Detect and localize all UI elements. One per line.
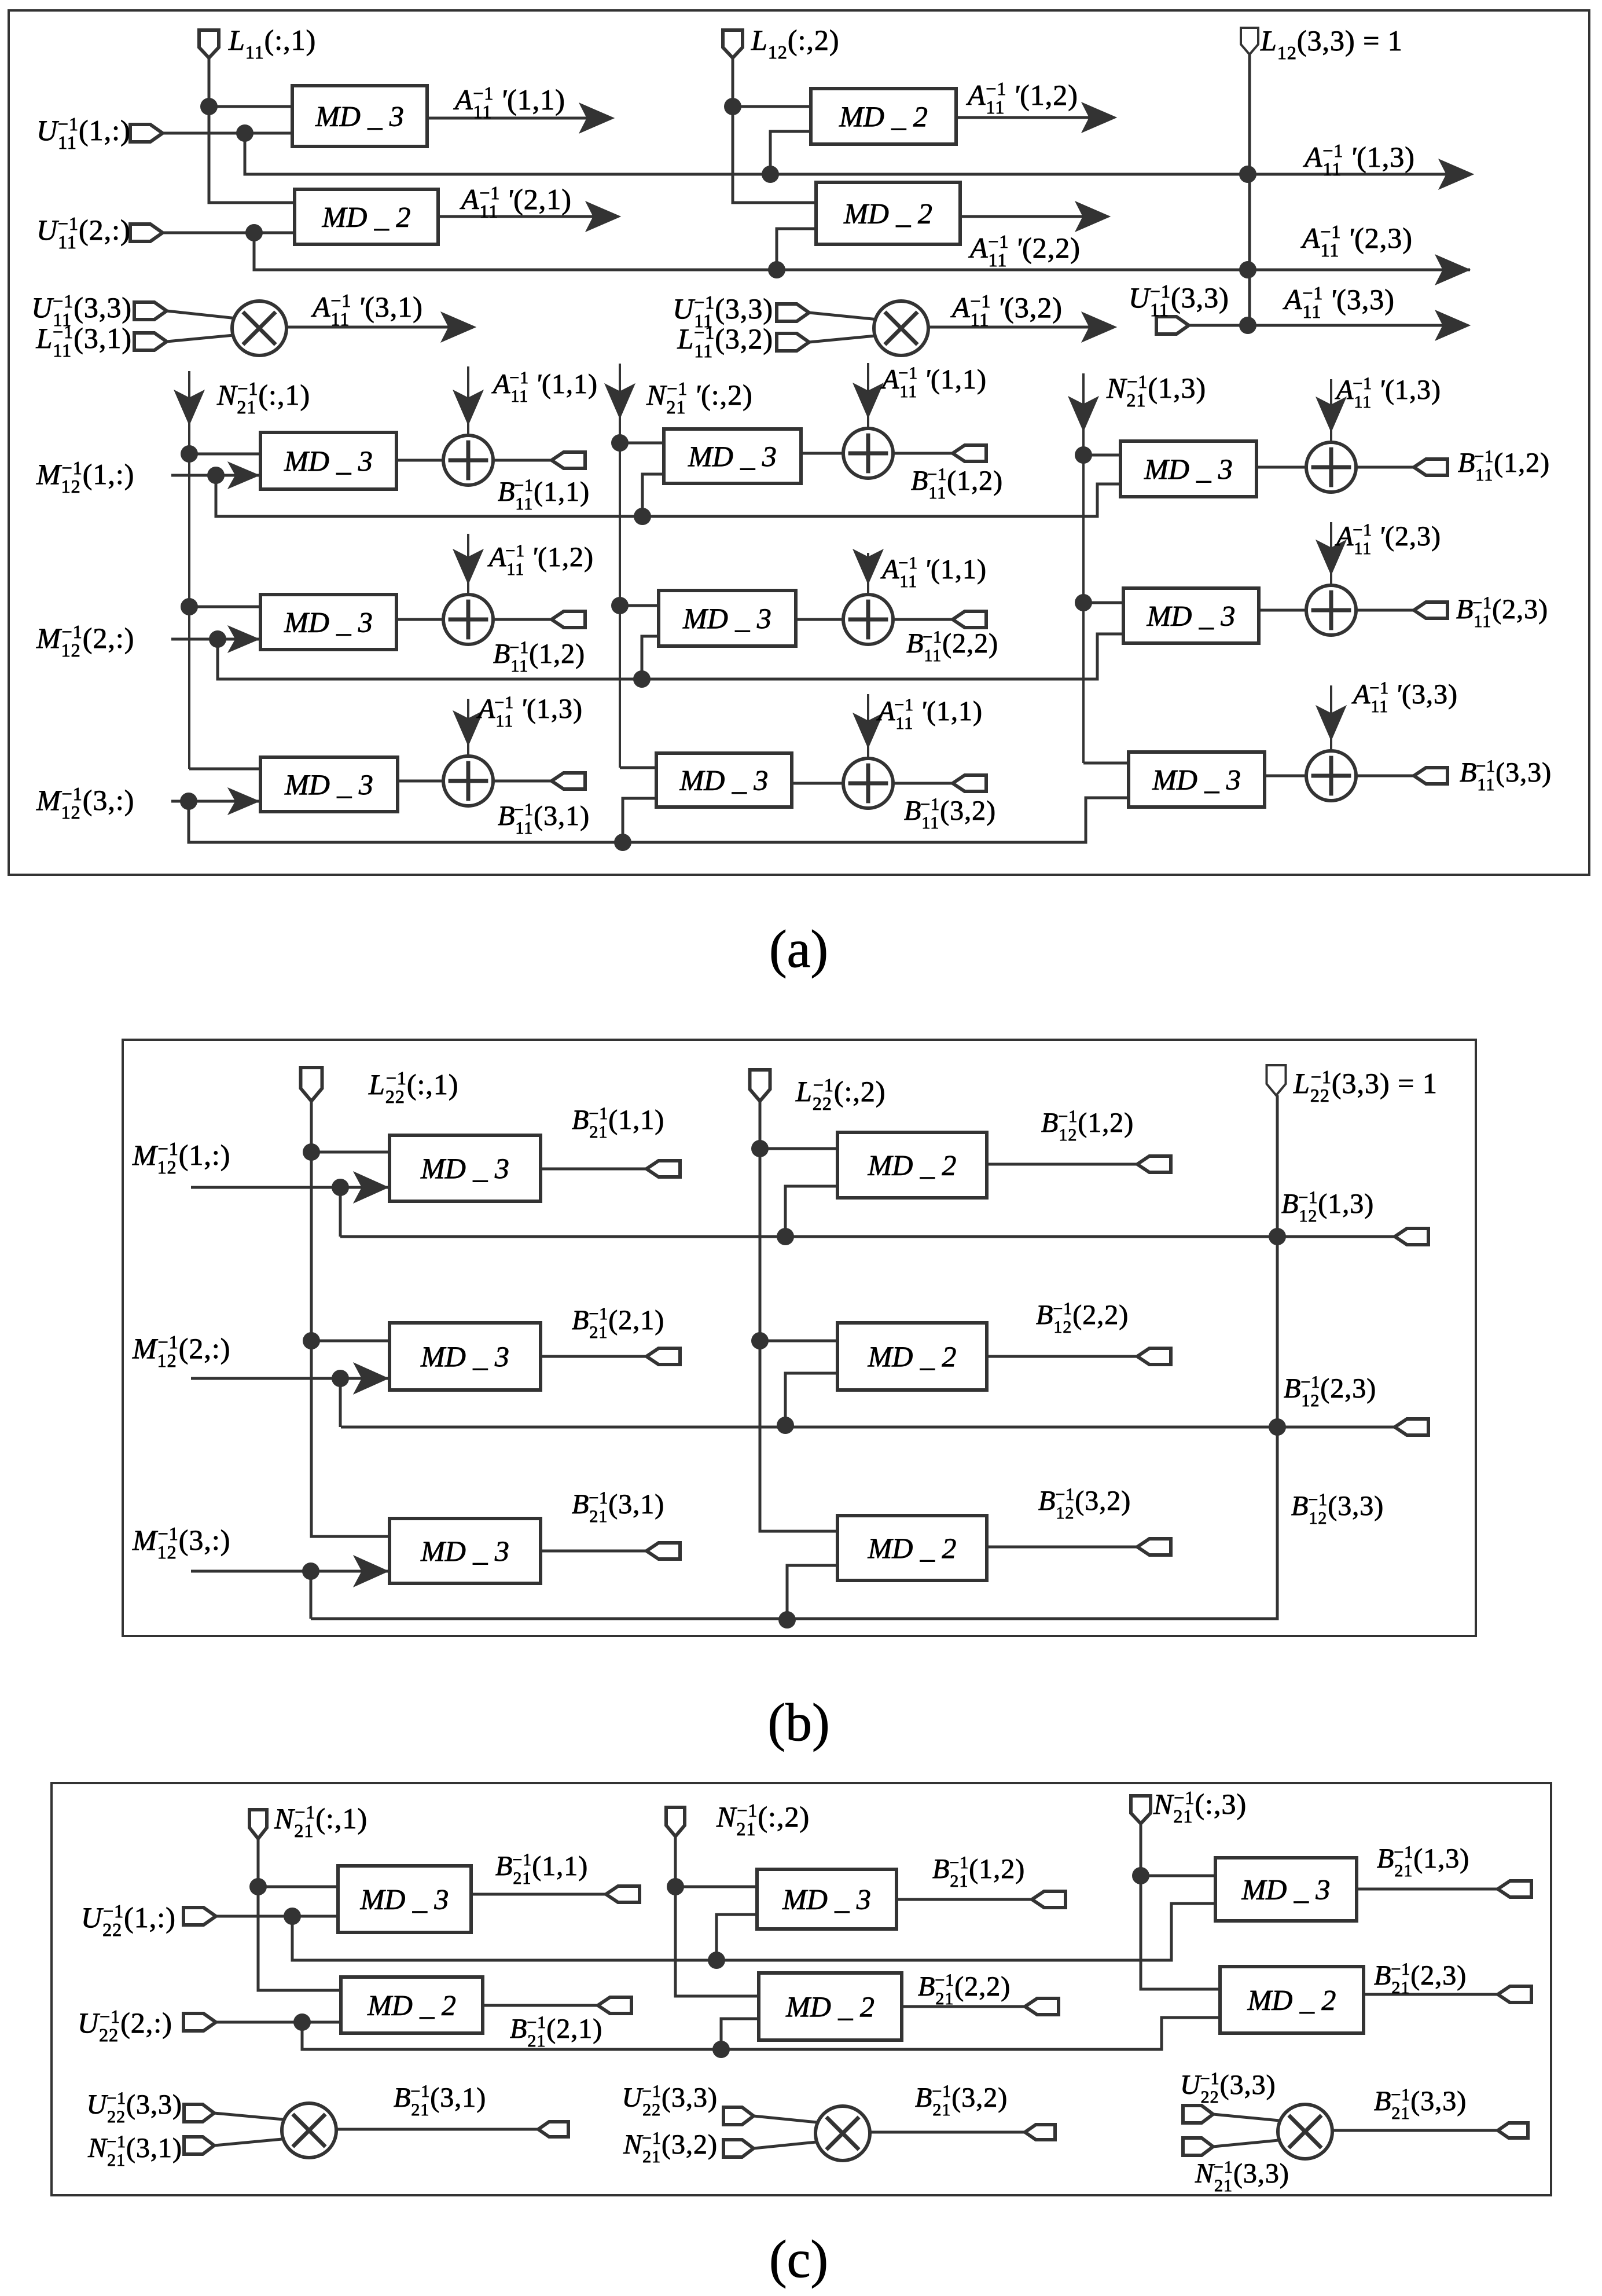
- node U22(2,:) branch: [293, 2013, 311, 2031]
- block MD_3 row1 col1: [260, 432, 396, 489]
- wire MD_2a output A11(1,2): [956, 116, 1113, 119]
- node N21 col3 (c): [1132, 1867, 1149, 1884]
- svg-text:(c): (c): [769, 2229, 828, 2288]
- block MD_3 b row3: [390, 1519, 541, 1583]
- node N21 vertical row1 col1: [181, 445, 198, 463]
- wire MD_2 b row3 output: [987, 1546, 1137, 1549]
- output flag B21(2,3) (c): [1498, 1986, 1531, 2002]
- node bus2 col2 (c): [712, 2041, 730, 2058]
- output flag B12 row3: [1137, 1539, 1171, 1555]
- panel (c) outer border: [52, 1783, 1551, 2195]
- wire adder to output row3 col2: [893, 782, 953, 785]
- wire N21 to MD_3 row3 col2: [620, 766, 656, 769]
- node bus1 col3: [1239, 166, 1256, 183]
- wire U22(3,3) to mult2: [754, 2116, 823, 2123]
- block MD_3 col1 (c): [338, 1866, 471, 1932]
- arrow A11 into adder row1 col1: [467, 366, 469, 435]
- multiplier (c) 2: [815, 2106, 870, 2161]
- wire L12(:,2) vertical: [733, 58, 816, 203]
- wire branch to A11(1,3) bus: [245, 133, 1470, 174]
- svg-text:MD _ 2: MD _ 2: [843, 197, 932, 230]
- wire adder to output row1 col2: [893, 452, 953, 455]
- node L22(:,2) row2: [751, 1332, 769, 1349]
- arrow A11(2,2): [1075, 201, 1110, 232]
- wire MD_3 output A11(1,1): [427, 117, 611, 120]
- wire M12-1(1,:) bus: [216, 475, 1120, 516]
- wire L11(3,2) to multiplier 2: [809, 335, 881, 342]
- wire N21 vertical col2 (c): [675, 1835, 759, 1996]
- io flag U11-1(1,:): [130, 124, 163, 142]
- io flag U22-1(2,:): [183, 2013, 216, 2031]
- wire L22(:,2) to box row2: [760, 1340, 837, 1343]
- output flag B12(1,3): [1395, 1228, 1428, 1245]
- wire bus branch up col2 (b) row2: [785, 1373, 837, 1425]
- wire bus2 branch up to MD_2b: [777, 229, 816, 270]
- wire MD_3 to adder row1 col1: [396, 459, 443, 462]
- wire M12-1(1,:): [171, 474, 260, 477]
- wire bus2 (c): [302, 2018, 1220, 2049]
- input flag N21-1(:,2) (c): [666, 1807, 685, 1836]
- wire MD_2 col3 output (c): [1364, 1993, 1498, 1996]
- wire N21 to MD_3 row1 col2: [620, 442, 664, 445]
- output flag B21(2,2) (c): [1025, 1998, 1059, 2015]
- input flag L22-1(3,3)=1: [1267, 1065, 1286, 1095]
- svg-text:MD _ 3: MD _ 3: [315, 100, 404, 133]
- wire U11(3,3) to multiplier: [167, 311, 242, 319]
- wire N21 to MD_3 col1 (c): [258, 1886, 338, 1888]
- wire MD_3 to adder row2 col2: [796, 618, 843, 621]
- wire MD_3 to adder row3 col3: [1265, 775, 1306, 777]
- adder row3 col1: [443, 756, 493, 806]
- svg-text:MD _ 3: MD _ 3: [284, 606, 373, 639]
- arrow A11 into adder row2 col3: [1330, 522, 1332, 585]
- node bus2 to MD_2b: [768, 261, 785, 278]
- arrow A11(2,3): [1435, 255, 1470, 285]
- wire N21 to MD_3 col3 (c): [1141, 1875, 1215, 1877]
- wire MD_3 col2 output (c): [896, 1898, 1032, 1901]
- node N21 col2 (c): [667, 1878, 684, 1895]
- node U11(1,:) branch: [236, 124, 253, 142]
- block MD_3 row3 col3: [1129, 752, 1265, 807]
- wire U11(3,3) to multiplier 2: [809, 313, 884, 320]
- wire U11(3,3) to node: [1189, 324, 1250, 327]
- node bus2 to col2 (b): [777, 1417, 794, 1434]
- arrow A11 into adder row3 col1: [467, 699, 469, 756]
- io flag U11-1(2,:): [130, 224, 163, 241]
- svg-text:MD _ 2: MD _ 2: [367, 1989, 456, 2022]
- wire L22(:,1) vertical: [311, 1101, 390, 1536]
- wire MD_3 to adder row3 col1: [398, 780, 443, 783]
- wire N21 to MD_3 col2 (c): [675, 1886, 757, 1888]
- input flag L12(:,2): [723, 30, 743, 58]
- wire N21 vertical col1 (c): [258, 1837, 341, 1990]
- arrow A11 into adder row2 col1: [467, 534, 469, 595]
- output flag B11 row1 col2: [953, 445, 986, 461]
- wire M12-1(2,:) bus branch col2: [642, 636, 659, 679]
- block MD_2 col1 (c): [341, 1977, 483, 2033]
- wire U22(3,3) to mult1: [214, 2113, 289, 2120]
- node M12-1(1,:) bus to col2: [634, 508, 651, 525]
- wire M12-1(3,:) bus: [189, 798, 1129, 842]
- arrow into MD_3 row3 col1: [228, 788, 259, 815]
- wire L22 to MD_3 b1: [311, 1151, 390, 1154]
- node bus3 to col2 (b): [778, 1611, 796, 1629]
- arrow into MD_3 b row3: [354, 1556, 388, 1587]
- adder row3 col3: [1306, 751, 1356, 801]
- arrow A11 into adder row2 col2: [867, 553, 869, 595]
- output flag B21(3,1): [538, 2122, 568, 2137]
- wire L12 to MD_2a input: [733, 105, 811, 108]
- node M12-1(3,:) bus to col2: [614, 834, 631, 851]
- wire U11(2,:) to MD_2: [163, 232, 295, 234]
- block MD_3 col3 (c): [1215, 1858, 1357, 1921]
- node N21 col1 (c): [249, 1878, 267, 1895]
- node L22(:,2) row1: [751, 1140, 769, 1157]
- output flag B21 (b) row2: [646, 1348, 680, 1365]
- wire N21(3,2) to mult2: [754, 2141, 822, 2148]
- wire L22 to MD_3 b2: [311, 1340, 390, 1343]
- svg-text:MD _ 2: MD _ 2: [785, 1990, 875, 2023]
- output flag B21 (b) row1: [646, 1161, 680, 1177]
- wire MD_2 col2 output (c): [902, 2005, 1025, 2008]
- wire L22(:,2) to box row1: [760, 1147, 837, 1150]
- arrow into MD_3 row2 col1: [228, 626, 259, 652]
- adder row2 col3: [1306, 585, 1356, 635]
- wire MD_3 to adder row1 col3: [1256, 466, 1306, 469]
- wire MD_3 col3 output (c): [1357, 1888, 1498, 1891]
- node bus2 col3 (b): [1269, 1418, 1286, 1436]
- io flag U11-1(3,3) left: [134, 302, 167, 320]
- wire MD_3 col1 output (c): [471, 1893, 606, 1896]
- node bus1 col2 (c): [708, 1952, 725, 1969]
- wire M12(2,:) (b): [191, 1377, 390, 1380]
- wire MD_2 col1 output (c): [483, 2004, 598, 2007]
- wire M12(1,:) bus (b): [339, 1187, 342, 1237]
- input flag N21-1(:,1) (c): [249, 1810, 267, 1839]
- wire branch to A11(2,3) bus: [254, 233, 1470, 270]
- wire M12-1(3,:): [171, 800, 260, 803]
- output flag B21 (b) row3: [646, 1543, 680, 1559]
- node N21 vertical row2 col3: [1075, 594, 1092, 611]
- wire multiplier2 output A11(3,2): [928, 326, 1113, 329]
- wire M12(3,:) bus (b): [310, 1571, 313, 1619]
- svg-text:MD _ 2: MD _ 2: [868, 1340, 957, 1373]
- wire mult3 output (c): [1332, 2129, 1498, 2132]
- output flag B21(1,1) (c): [606, 1886, 640, 1902]
- input flag L11(:,1): [199, 30, 219, 58]
- output flag B21(1,3) (c): [1498, 1881, 1531, 1897]
- block MD_2 col3 (c): [1220, 1967, 1364, 2033]
- node bus1 to MD_2a: [762, 166, 779, 183]
- arrow A11(1,1): [579, 103, 614, 133]
- wire bus branch up col2 (b) row1: [785, 1186, 837, 1237]
- io flag U22-1(3,3) mult2 (c): [723, 2107, 754, 2125]
- wire adder to output row3 col3: [1356, 775, 1414, 777]
- block MD_2 col2 (c): [759, 1973, 902, 2040]
- node M12-1(2,:) bus to col2: [633, 670, 651, 688]
- io flag N21-1(3,2) (c): [723, 2140, 754, 2157]
- wire adder to output row2 col2: [893, 618, 953, 621]
- node M12-1(1,:) branch: [207, 467, 225, 484]
- io flag U22-1(1,:): [183, 1908, 216, 1925]
- svg-text:MD _ 3: MD _ 3: [1152, 764, 1241, 796]
- wire L12(3,3) vertical: [1248, 54, 1251, 325]
- wire N21 to MD_3 row3 col3: [1083, 762, 1129, 765]
- wire N21 to MD_3 row2 col2: [620, 604, 659, 607]
- wire bus2 branch col2 (c): [721, 2019, 759, 2049]
- input flag N21-1(:,3) (c): [1131, 1796, 1151, 1824]
- block MD_3 row3 col2: [656, 753, 792, 807]
- svg-text:MD _ 3: MD _ 3: [1147, 600, 1236, 632]
- node N21 vertical row2 col1: [181, 598, 198, 615]
- io flag L11-1(3,2): [777, 333, 809, 351]
- arrow A11 into adder row3 col3: [1330, 685, 1332, 751]
- block MD_3 row3 col1: [260, 757, 398, 812]
- node M12(1,:) branch (b): [332, 1179, 349, 1196]
- multiplier (c) 3: [1278, 2104, 1332, 2159]
- arrow A11(3,3): [1435, 310, 1470, 340]
- input flag L12(3,3)=1: [1241, 28, 1258, 54]
- block MD_3 b row1: [390, 1135, 541, 1201]
- block MD_2 b row3 col2: [837, 1516, 987, 1580]
- output flag B11 row1 col1: [552, 452, 585, 468]
- wire bus1 (c): [292, 1903, 1215, 1960]
- io flag U11-1(3,3) mid: [777, 304, 809, 321]
- wire M12(2,:) bus (b): [339, 1378, 342, 1427]
- output flag B12(2,3): [1395, 1419, 1428, 1435]
- arrow A11(3,1): [441, 312, 476, 342]
- svg-text:MD _ 3: MD _ 3: [688, 440, 777, 472]
- wire N21(3,1) to mult1: [214, 2139, 288, 2145]
- output flag B11 row2 col2: [953, 611, 986, 628]
- output flag B21(3,3): [1498, 2123, 1528, 2138]
- wire adder to output row3 col1: [493, 780, 552, 783]
- block MD_2 (a) top-col2: [811, 89, 956, 144]
- node N21 vertical row1 col3: [1075, 446, 1092, 464]
- wire MD_2 output A11(2,1): [438, 215, 617, 218]
- wire M12(3,:) (b): [191, 1570, 390, 1573]
- wire U11(1,:) to MD_3: [163, 132, 292, 135]
- arrow A11(1,2): [1082, 102, 1116, 133]
- adder row1 col3: [1306, 442, 1356, 492]
- node L22 row1: [303, 1143, 320, 1161]
- wire U22(1,:) (c): [216, 1915, 338, 1918]
- wire N21(3,3) to mult3: [1213, 2140, 1284, 2147]
- block MD_3 row2 col1: [260, 595, 396, 650]
- svg-text:MD _ 3: MD _ 3: [1144, 453, 1233, 485]
- adder row3 col2: [843, 758, 893, 808]
- wire MD_3 to adder row2 col1: [396, 618, 443, 621]
- block MD_3 col2 (c): [757, 1869, 896, 1929]
- arrow A11(1,3): [1439, 159, 1474, 189]
- arrow A11 into adder row1 col3: [1330, 379, 1332, 442]
- wire M12-1(2,:) bus: [218, 634, 1123, 679]
- wire MD_3 to adder row2 col3: [1259, 609, 1306, 612]
- svg-text:(a): (a): [769, 919, 828, 978]
- wire A11(3,3) output: [1248, 324, 1467, 327]
- wire MD_2 b row2 output: [987, 1355, 1137, 1358]
- node A11(3,3): [1239, 317, 1256, 334]
- wire bus branch up col2 (b) row3: [787, 1565, 837, 1620]
- wire U22(2,:) (c): [216, 2021, 341, 2024]
- wire L22(:,2) vertical: [760, 1100, 837, 1531]
- panel (a) outer border: [9, 10, 1589, 875]
- input arrow N21-1(:,2): [619, 364, 621, 768]
- wire M12-1(3,:) bus branch col2: [623, 798, 656, 842]
- wire adder to output row2 col3: [1356, 609, 1414, 612]
- arrow A11(2,1): [586, 201, 620, 232]
- wire MD_3 to adder row1 col2: [801, 452, 843, 455]
- block MD_3 row2 col2: [659, 590, 796, 646]
- arrow A11 into adder row3 col2: [867, 694, 869, 758]
- svg-text:(b): (b): [767, 1693, 829, 1752]
- wire MD_3 b row3 output: [541, 1550, 646, 1553]
- input flag L22-1(:,2): [750, 1070, 770, 1101]
- block MD_3 b row2: [390, 1323, 541, 1390]
- io flag U22-1(3,3) mult1 (c): [184, 2104, 214, 2122]
- svg-text:MD _ 3: MD _ 3: [420, 1340, 509, 1373]
- output flag B21(3,2): [1025, 2125, 1055, 2140]
- svg-text:MD _ 3: MD _ 3: [284, 445, 373, 477]
- wire B12(2,3) output: [1277, 1426, 1395, 1429]
- node M12(2,:) branch (b): [332, 1370, 349, 1387]
- node U11(2,:) branch: [245, 224, 263, 241]
- output flag B11 row3 col2: [953, 775, 986, 791]
- adder row1 col2: [843, 428, 893, 478]
- block MD_3 row1 col2: [664, 429, 801, 483]
- block MD_3 row2 col3: [1123, 588, 1259, 643]
- arrow into MD_3 b row1: [354, 1172, 388, 1203]
- wire mult2 output (c): [870, 2131, 1025, 2134]
- wire N21 to MD_3 row2 col3: [1083, 601, 1123, 604]
- wire adder to output row1 col1: [493, 459, 552, 462]
- wire L11(3,1) to multiplier: [167, 335, 240, 342]
- wire M12(1,:) (b): [191, 1186, 390, 1189]
- wire N21 to MD_3 row1 col1: [189, 453, 260, 456]
- wire N21 to MD_3 row1 col3: [1083, 454, 1120, 457]
- arrow A11(3,2): [1082, 312, 1116, 342]
- svg-text:MD _ 2: MD _ 2: [1247, 1984, 1336, 2016]
- wire MD_2 b row1 output: [987, 1163, 1137, 1166]
- multiplier X2: [874, 301, 928, 355]
- arrow into MD_3 b row2: [354, 1363, 388, 1394]
- output flag B11 row1 col3: [1414, 459, 1447, 475]
- io flag L11-1(3,1): [134, 333, 167, 350]
- node M12(3,:) branch (b): [302, 1563, 319, 1580]
- wire MD_2b output A11(2,2): [960, 215, 1107, 218]
- output flag B21(1,2) (c): [1032, 1891, 1065, 1908]
- svg-text:MD _ 3: MD _ 3: [682, 602, 771, 634]
- wire N21 to MD_3 row3 col1: [189, 768, 260, 771]
- node bus2 col3: [1239, 261, 1256, 278]
- wire MD_3 b row2 output: [541, 1355, 646, 1358]
- adder row2 col1: [443, 595, 493, 644]
- wire M12-1(1,:) bus branch col2: [642, 474, 664, 516]
- wire L11(:,1) vertical: [209, 58, 295, 203]
- output flag B11 row3 col1: [552, 773, 585, 789]
- wire U22(3,3) to mult3: [1213, 2114, 1285, 2121]
- node L11 junction: [200, 98, 218, 115]
- io flag N21-1(3,3) (c): [1183, 2138, 1213, 2155]
- wire bus2 (b): [341, 1426, 1277, 1429]
- multiplier X1: [232, 301, 286, 355]
- svg-text:MD _ 2: MD _ 2: [868, 1149, 957, 1182]
- adder row2 col2: [843, 595, 893, 644]
- wire bus1 (b): [340, 1235, 1277, 1238]
- wire mult1 output (c): [336, 2128, 538, 2131]
- wire adder to output row1 col3: [1356, 466, 1414, 469]
- io flag U11-1(3,3) right: [1156, 317, 1189, 334]
- svg-text:MD _ 3: MD _ 3: [420, 1152, 509, 1184]
- multiplier (c) 1: [282, 2103, 336, 2158]
- node M12-1(2,:) branch: [209, 630, 226, 648]
- svg-text:MD _ 3: MD _ 3: [782, 1883, 871, 1916]
- wire N21 vertical col3 (c): [1141, 1824, 1220, 1989]
- wire adder to output row2 col1: [493, 618, 552, 621]
- node L22 row2: [303, 1332, 320, 1349]
- output flag B12 row1: [1137, 1156, 1171, 1172]
- svg-text:MD _ 3: MD _ 3: [1241, 1873, 1331, 1906]
- node bus1 to col2 (b): [777, 1228, 794, 1245]
- block MD_2 (a) mid-left: [295, 189, 438, 244]
- output flag B21(2,1) (c): [598, 1997, 631, 2013]
- node bus1 col3 (b): [1269, 1228, 1286, 1245]
- wire multiplier output A11(3,1): [286, 326, 472, 329]
- svg-text:MD _ 3: MD _ 3: [360, 1883, 449, 1916]
- output flag B12 row2: [1137, 1348, 1171, 1365]
- wire bus1 branch up to MD_2a: [770, 131, 811, 174]
- wire N21 to MD_3 row2 col1: [189, 606, 260, 608]
- wire B12(1,3) output: [1277, 1235, 1395, 1238]
- block MD_3 (a) top-left: [292, 86, 427, 146]
- node M12-1(3,:) branch: [180, 793, 197, 810]
- node U22(1,:) branch: [284, 1908, 301, 1925]
- block MD_3 row1 col3: [1120, 441, 1256, 497]
- block MD_2 b row2 col2: [837, 1323, 987, 1390]
- svg-text:MD _ 2: MD _ 2: [839, 100, 928, 133]
- wire bus3 (b): [311, 1095, 1277, 1619]
- input arrow N21-1(:,1): [188, 371, 190, 769]
- wire bus1 branch col2 (c): [717, 1914, 757, 1960]
- node L12 junction: [724, 98, 741, 115]
- svg-text:MD _ 2: MD _ 2: [322, 201, 411, 233]
- wire L11 to MD_3 row input: [209, 105, 292, 108]
- block MD_2 b row1 col2: [837, 1132, 987, 1198]
- wire M12-1(2,:): [171, 638, 260, 641]
- input arrow N21-1(1,3): [1082, 373, 1085, 763]
- adder row1 col1: [443, 435, 493, 485]
- io flag N21-1(3,1) (c): [184, 2137, 214, 2154]
- io flag U22-1(3,3) mult3 (c): [1183, 2106, 1213, 2123]
- panel (b) outer border: [123, 1040, 1476, 1636]
- svg-text:MD _ 3: MD _ 3: [284, 768, 373, 801]
- arrow A11 into adder row1 col2: [867, 363, 869, 428]
- node N21 vertical row1 col2: [611, 434, 629, 452]
- svg-text:MD _ 3: MD _ 3: [420, 1535, 509, 1567]
- node N21 vertical row2 col2: [611, 597, 629, 614]
- wire MD_3 b row1 output: [541, 1168, 646, 1171]
- output flag B11 row3 col3: [1414, 768, 1447, 784]
- output flag B11 row2 col1: [552, 611, 585, 628]
- svg-text:MD _ 3: MD _ 3: [679, 764, 769, 797]
- wire MD_3 to adder row3 col2: [792, 782, 843, 785]
- block MD_2 (a) mid-col2: [816, 182, 960, 244]
- arrow into MD_3 row1 col1: [228, 462, 259, 489]
- input flag L22-1(:,1): [301, 1068, 322, 1101]
- svg-text:MD _ 2: MD _ 2: [868, 1532, 957, 1564]
- output flag B11 row2 col3: [1414, 602, 1447, 618]
